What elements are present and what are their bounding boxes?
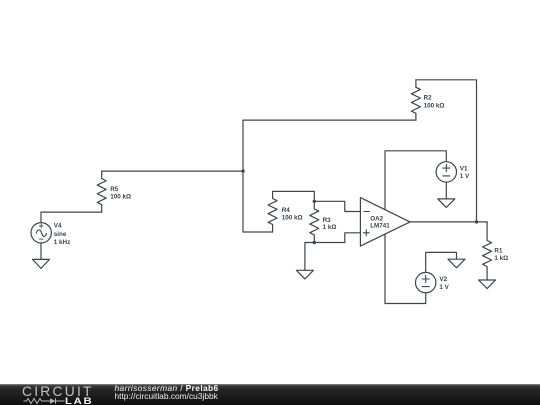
svg-text:LM741: LM741 (370, 223, 390, 230)
ground below V1 (438, 199, 455, 208)
svg-text:100 kΩ: 100 kΩ (110, 194, 131, 201)
resistor R2 (411, 80, 420, 120)
wire: V1 bottom lead (445, 182, 447, 199)
ground below V4 (33, 259, 50, 268)
wire: R2 bottom horizontal (243, 119, 416, 121)
svg-text:100 kΩ: 100 kΩ (282, 214, 303, 221)
svg-text:V4: V4 (54, 223, 62, 230)
svg-text:R3: R3 (323, 217, 332, 224)
voltage source V1 (436, 162, 456, 182)
op-amp OA2 LM741 (360, 198, 410, 247)
svg-text:1 V: 1 V (460, 173, 470, 180)
svg-text:R5: R5 (110, 186, 119, 193)
wire: R2 top to output node (416, 80, 477, 222)
svg-text:1 V: 1 V (439, 284, 449, 291)
resistor R5 (97, 171, 106, 212)
label V2 / 1 V (439, 276, 449, 291)
label R2 / 100 kΩ (424, 95, 445, 110)
credit line 1 (115, 384, 219, 393)
node A junction dot (241, 169, 244, 172)
label V1 / 1 V (460, 165, 470, 180)
wire: V4 top to R5 bottom (41, 212, 102, 223)
svg-text:sine: sine (54, 231, 67, 238)
label R5 / 100 kΩ (110, 186, 131, 201)
svg-text:V1: V1 (460, 165, 468, 172)
credit line 2 (115, 392, 218, 401)
wire: op-amp V- to V2 (385, 234, 426, 303)
CircuitLab logo: CIRCUIT (22, 385, 94, 398)
junction dot output node (475, 220, 478, 223)
svg-text:1 kHz: 1 kHz (54, 239, 70, 246)
CircuitLab logo: resistor-diode squiggle (22, 397, 67, 405)
junction dot R3 bottom (313, 241, 316, 244)
ground below R3 (296, 270, 313, 279)
svg-text:1 kΩ: 1 kΩ (494, 255, 508, 262)
wire: inverting input (R3 top to op-amp minus) (314, 201, 360, 211)
wire: non-inverting input (R3 bottom to op-amp plus) (314, 233, 360, 243)
label V4 / sine / 1 kHz (54, 223, 70, 246)
resistor R4 (268, 191, 277, 232)
label R4 / 100 kΩ (282, 207, 303, 221)
voltage source V2 (416, 272, 436, 292)
label R1 / 1 kΩ (494, 247, 508, 262)
voltage source V4 (31, 223, 51, 243)
wire: R5 top to node A (102, 170, 243, 172)
svg-text:R2: R2 (424, 95, 433, 102)
wire: R3 bottom to ground stem (305, 243, 314, 271)
svg-text:OA2: OA2 (370, 216, 383, 223)
svg-text:R4: R4 (282, 207, 291, 214)
ground right of V2 (448, 259, 465, 268)
svg-text:V2: V2 (439, 276, 447, 283)
wire: R4 top to R3 top (273, 191, 315, 201)
junction dot R3 top (313, 200, 316, 203)
wire: V2 top to ground (426, 252, 457, 272)
ground below R1 (479, 280, 496, 289)
label OA2 / LM741 (370, 216, 390, 230)
svg-text:100 kΩ: 100 kΩ (424, 102, 445, 109)
footer bar (0, 384, 540, 405)
resistor R1 (483, 222, 492, 280)
svg-text:1 kΩ: 1 kΩ (323, 224, 337, 231)
svg-text:R1: R1 (494, 247, 503, 254)
CircuitLab logo: LAB (65, 397, 93, 405)
wire: node A vertical (R2 bottom to R4 bottom) (242, 120, 244, 232)
wire: op-amp output (410, 221, 487, 223)
resistor R3 (310, 201, 319, 242)
wire: op-amp V+ to V1 (385, 151, 446, 210)
wire: V4 bottom lead (40, 243, 42, 259)
label R3 / 1 kΩ (323, 217, 337, 231)
wire: node A to R4 bottom (243, 231, 273, 233)
